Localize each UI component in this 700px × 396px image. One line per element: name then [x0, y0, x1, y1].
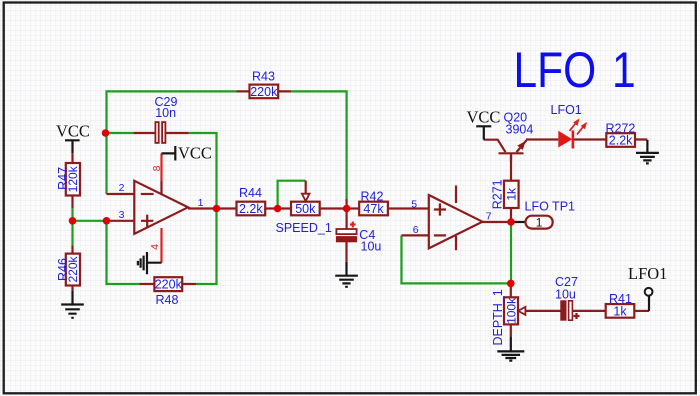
svg-text:LFO1: LFO1 — [551, 103, 582, 117]
LED LFO1 light arrows — [570, 124, 576, 132]
resistor R41 box — [606, 304, 635, 318]
resistor R48 box — [154, 277, 182, 291]
svg-text:LFO TP1: LFO TP1 — [525, 199, 576, 213]
svg-text:LFO: LFO — [514, 42, 597, 98]
wire opamp1 output to R44 — [188, 207, 237, 209]
wire pin3 node down to R48 left — [107, 221, 140, 284]
resistor R272 box — [606, 133, 635, 147]
wire C29 left stub — [106, 132, 134, 134]
resistor R271 box — [504, 181, 519, 208]
svg-text:10n: 10n — [155, 106, 176, 120]
VCC supply symbol (left) — [65, 140, 80, 153]
wire 50k pot loop — [278, 181, 306, 209]
wire pin3 lead — [107, 220, 135, 222]
wire opamp2 output to node — [482, 221, 511, 223]
wire Q20 emitter to LED — [526, 138, 558, 140]
resistor R44 box — [237, 202, 266, 216]
capacitor C4 plus mark — [350, 222, 356, 228]
transistor Q20 collector — [484, 140, 506, 153]
wire C29 right over and down to output node and R48 right — [189, 133, 217, 284]
op-amp U1 minus input mark — [141, 193, 154, 195]
wire opamp2 output down to depth node — [510, 222, 512, 283]
ground symbol under R46 — [61, 291, 84, 318]
junction node X (R43/C4/R42) — [343, 205, 351, 213]
op-amp U2 power ticks — [455, 186, 457, 251]
wire R48 leads — [140, 283, 197, 285]
svg-text:3904: 3904 — [506, 123, 534, 137]
svg-text:8: 8 — [151, 165, 163, 171]
svg-text:2.2k: 2.2k — [609, 134, 633, 148]
op-amp U1 pin 8 line — [160, 154, 162, 182]
svg-text:R44: R44 — [239, 186, 262, 200]
svg-text:R46: R46 — [56, 258, 70, 281]
capacitor C29 plates — [155, 122, 158, 143]
junction node R47/R46 divider — [69, 217, 77, 225]
svg-text:100k: 100k — [504, 297, 518, 324]
junction node DEPTH_1 top — [507, 280, 515, 288]
op-amp U2 minus input mark — [434, 234, 446, 236]
VCC supply symbol (Q20 collector) — [476, 126, 491, 139]
svg-text:6: 6 — [413, 224, 419, 236]
svg-text:1: 1 — [198, 197, 204, 209]
svg-text:10u: 10u — [361, 240, 382, 254]
potentiometer SPEED_1 wiper stub — [305, 181, 307, 194]
svg-text:3: 3 — [119, 209, 125, 221]
op-amp U1 body — [134, 181, 188, 234]
ground symbol at op-amp pin 4 — [138, 252, 162, 274]
wire R272 leads — [574, 138, 648, 140]
transistor Q20 base lead — [510, 154, 512, 162]
wire C29 leads — [134, 132, 189, 134]
junction node C29/feedback — [102, 129, 110, 137]
resistor R46 box — [66, 254, 80, 286]
junction node op-amp1 output — [213, 205, 221, 213]
capacitor C4 plates — [336, 229, 356, 234]
svg-text:10u: 10u — [555, 287, 576, 301]
wire net from pin2 up and over R43 to node X — [107, 91, 237, 194]
wire C4 bottom pin — [345, 242, 347, 262]
svg-text:220k: 220k — [250, 85, 278, 99]
resistor R42 box — [359, 202, 388, 216]
svg-text:VCC: VCC — [467, 108, 501, 127]
transistor Q20 base bar — [499, 152, 524, 154]
wire depth node left and up to pin6 — [402, 235, 511, 283]
wire pin6 lead — [402, 234, 429, 236]
svg-text:SPEED_1: SPEED_1 — [276, 221, 332, 235]
svg-text:7: 7 — [486, 210, 492, 222]
wire R46 pins — [71, 246, 73, 292]
ground symbol under C4 — [335, 262, 358, 287]
potentiometer DEPTH_1 wiper arrow — [518, 307, 525, 315]
svg-text:DEPTH_1: DEPTH_1 — [491, 289, 505, 345]
op-amp U2 plus input mark — [434, 203, 446, 215]
svg-text:220k: 220k — [155, 278, 183, 292]
transistor Q20 emitter arrow — [517, 141, 526, 150]
svg-text:2.2k: 2.2k — [239, 202, 263, 216]
ground symbol under R272 — [636, 140, 659, 163]
svg-text:R43: R43 — [252, 70, 275, 84]
svg-text:R272: R272 — [606, 121, 636, 135]
wire C27 to R41 — [572, 310, 606, 312]
svg-text:2: 2 — [119, 182, 125, 194]
wire R41 to port — [634, 310, 649, 312]
junction node pin3 — [103, 217, 111, 225]
wire DEPTH_1 pot pins — [510, 283, 512, 336]
wire pin2 lead — [107, 193, 135, 195]
VCC supply symbol (op-amp pin 8) — [162, 146, 176, 161]
LED LFO1 cathode bar — [572, 131, 575, 149]
svg-text:VCC: VCC — [56, 122, 90, 141]
op-amp U1 pin 4 line — [160, 228, 162, 263]
svg-text:R48: R48 — [156, 293, 179, 307]
wire R44 to 50k — [265, 207, 291, 209]
resistor R43 box — [250, 85, 279, 99]
svg-text:47k: 47k — [363, 202, 384, 216]
potentiometer SPEED_1 wiper arrow — [302, 194, 310, 202]
svg-text:R271: R271 — [490, 179, 504, 209]
wire R271 pins — [510, 154, 512, 222]
capacitor C27 plates — [561, 301, 566, 320]
svg-text:1: 1 — [536, 215, 543, 229]
transistor Q20 emitter — [517, 140, 527, 152]
resistor R47 box — [66, 163, 80, 196]
wire R43 leads — [237, 90, 292, 92]
wire DEPTH_1 wiper to C27 — [526, 310, 561, 312]
svg-text:5: 5 — [411, 198, 417, 210]
svg-text:VCC: VCC — [178, 144, 212, 163]
wire R47 pins — [71, 153, 73, 208]
svg-text:50k: 50k — [295, 202, 316, 216]
wire C4 top pin — [346, 199, 348, 229]
wire R42 to pin5 — [388, 207, 429, 209]
potentiometer SPEED_1 box — [291, 202, 320, 216]
test point LFO TP1 stub — [511, 221, 526, 223]
svg-text:1k: 1k — [505, 187, 519, 201]
op-amp U2 body — [429, 195, 483, 248]
svg-text:R41: R41 — [609, 292, 632, 306]
wire R43 right to node X down-leg — [291, 91, 346, 199]
svg-text:1: 1 — [612, 42, 636, 98]
wire node X to R42 — [347, 207, 360, 209]
wire 50k to node X — [320, 207, 347, 209]
potentiometer DEPTH_1 box — [504, 297, 518, 324]
ground symbol under DEPTH_1 — [497, 336, 524, 360]
junction node R44/50k — [274, 205, 282, 213]
svg-text:R42: R42 — [361, 189, 384, 203]
wire divider node to pin3 — [73, 220, 107, 222]
svg-text:LFO1: LFO1 — [628, 264, 667, 283]
svg-text:1k: 1k — [613, 305, 627, 319]
port LFO1 pin — [648, 296, 650, 311]
svg-text:4: 4 — [149, 244, 161, 250]
LED LFO1 triangle — [558, 131, 572, 148]
wire R47 to R46 — [71, 208, 73, 245]
capacitor C27 plus mark — [574, 313, 580, 319]
op-amp U1 plus input mark — [141, 215, 153, 227]
test point LFO TP1 pad — [526, 216, 553, 229]
svg-text:R47: R47 — [56, 167, 70, 190]
junction node op-amp2 output — [507, 218, 515, 226]
